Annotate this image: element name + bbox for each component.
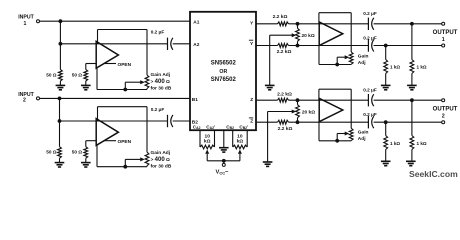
svg-text:VCC−: VCC− xyxy=(215,170,229,176)
svg-text:0.2 μF: 0.2 μF xyxy=(151,107,165,112)
op-amp U4 xyxy=(319,98,343,121)
node output1 bottom junction xyxy=(384,44,388,48)
svg-text:> 400 Ω: > 400 Ω xyxy=(151,79,170,85)
node output1 top junction xyxy=(410,22,414,26)
svg-text:50 Ω: 50 Ω xyxy=(46,72,57,77)
wire R9 to node xyxy=(289,99,369,101)
node Zbar junction xyxy=(296,120,300,124)
node amp1 input junction xyxy=(59,42,63,46)
svg-text:Gain Adj: Gain Adj xyxy=(151,72,171,78)
resistor R11 1k xyxy=(385,122,387,135)
svg-text:Gain Adj: Gain Adj xyxy=(151,150,171,156)
ground input1 xyxy=(56,84,66,86)
svg-text:1 kΩ: 1 kΩ xyxy=(417,141,427,146)
ground pot P7 xyxy=(263,161,273,163)
input terminal INPUT 2 xyxy=(37,97,40,100)
svg-text:1 kΩ: 1 kΩ xyxy=(390,64,400,69)
pot P4 10k body xyxy=(233,145,248,149)
svg-text:0.2 μF: 0.2 μF xyxy=(363,112,377,117)
wire C3 to output xyxy=(374,23,442,25)
node output2 bottom junction xyxy=(384,120,388,124)
node Ybar junction xyxy=(296,44,300,48)
feedback loop U4 xyxy=(318,89,320,100)
input terminal INPUT 1 xyxy=(37,20,40,23)
svg-text:SeekIC.com: SeekIC.com xyxy=(409,169,458,179)
pot P5 wiper xyxy=(270,34,293,36)
wire Z row xyxy=(256,99,278,101)
svg-text:2.2 kΩ: 2.2 kΩ xyxy=(278,126,293,132)
svg-text:0.2 μF: 0.2 μF xyxy=(151,30,165,35)
svg-text:INPUT: INPUT xyxy=(18,15,34,21)
svg-text:OUTPUT: OUTPUT xyxy=(433,107,458,113)
IC U2 SN56502/SN76502 xyxy=(190,12,256,130)
svg-text:1: 1 xyxy=(442,37,445,43)
pot P7 wiper xyxy=(268,111,293,113)
svg-text:OPEN: OPEN xyxy=(118,139,132,145)
pot P4 wiper xyxy=(238,150,242,154)
svg-text:Z: Z xyxy=(250,97,253,103)
pot P3 wiper xyxy=(205,150,209,154)
gain pot P6 U3 xyxy=(349,52,353,64)
feedback loop amp1 xyxy=(97,30,99,44)
svg-text:OPEN: OPEN xyxy=(118,62,132,68)
wire amp2 input row xyxy=(60,120,168,122)
svg-text:2.2 kΩ: 2.2 kΩ xyxy=(277,91,292,97)
ground R7 xyxy=(381,84,391,86)
resistor R10 2.2k xyxy=(278,120,289,124)
svg-text:Adj: Adj xyxy=(358,136,366,142)
ground IC substrate xyxy=(223,130,225,148)
ground R11 xyxy=(381,160,391,162)
svg-text:A1: A1 xyxy=(193,20,199,26)
svg-text:0.2 μF: 0.2 μF xyxy=(363,11,377,16)
svg-text:1: 1 xyxy=(24,21,27,27)
wire wiper2 to ground xyxy=(267,112,269,163)
capacitor C6 0.2uF xyxy=(367,116,369,128)
ground R2 xyxy=(81,84,91,86)
op-amp U3 xyxy=(319,22,343,46)
pot P3 10k legs xyxy=(199,130,201,147)
svg-text:2.2 kΩ: 2.2 kΩ xyxy=(273,14,288,20)
node Y junction xyxy=(296,22,300,26)
node Z junction xyxy=(296,98,300,102)
ground input2 xyxy=(55,162,65,164)
capacitor C1 0.2uF to A2 xyxy=(167,38,169,50)
svg-text:OUTPUT: OUTPUT xyxy=(433,30,458,36)
svg-text:0.2 μF: 0.2 μF xyxy=(363,35,377,40)
svg-text:kΩ: kΩ xyxy=(204,139,211,145)
capacitor C4 0.2uF xyxy=(367,39,369,51)
wire wiper1 to ground xyxy=(269,35,271,85)
svg-text:Adj: Adj xyxy=(358,60,366,66)
svg-text:Gain: Gain xyxy=(358,53,369,59)
svg-text:0.2 μF: 0.2 μF xyxy=(363,87,377,92)
capacitor C2 0.2uF to B2 xyxy=(167,115,169,127)
resistor R4 50ohm xyxy=(85,141,87,147)
resistor R12 1k xyxy=(411,100,413,135)
resistor R7 1k xyxy=(385,46,387,60)
svg-text:50 Ω: 50 Ω xyxy=(72,72,83,77)
wire VCC bus xyxy=(207,160,240,162)
svg-text:20 kΩ: 20 kΩ xyxy=(302,33,315,39)
feedback loop amp2 xyxy=(97,107,99,121)
node input1 junction xyxy=(59,19,63,23)
ground R4 xyxy=(81,162,91,164)
label OPEN amp2 xyxy=(104,140,116,142)
resistor R9 2.2k xyxy=(278,98,289,102)
wire Zbar row xyxy=(256,121,278,123)
ground pot P5 xyxy=(265,84,275,86)
svg-text:2.2 kΩ: 2.2 kΩ xyxy=(277,49,292,55)
svg-text:INPUT: INPUT xyxy=(18,92,34,98)
op-amp U1B xyxy=(86,140,96,142)
svg-text:> 400 Ω: > 400 Ω xyxy=(151,157,170,163)
wire amp1 input row xyxy=(60,43,167,45)
svg-text:50 Ω: 50 Ω xyxy=(72,150,83,155)
capacitor C3 0.2uF xyxy=(367,18,369,30)
label OPEN amp1 xyxy=(104,63,116,65)
svg-text:Z: Z xyxy=(250,119,253,125)
wire R6 to node xyxy=(289,45,369,47)
svg-text:Gain: Gain xyxy=(358,130,369,136)
ground R12 xyxy=(406,160,416,162)
op-amp U1A xyxy=(86,63,96,65)
svg-text:50 Ω: 50 Ω xyxy=(46,150,57,155)
resistor R1 50ohm xyxy=(59,44,61,70)
ground R8 xyxy=(407,84,417,86)
pot P5 20k xyxy=(297,24,299,29)
output terminal OUTPUT 2 xyxy=(442,99,445,102)
wire Y row xyxy=(256,23,278,25)
svg-text:1 kΩ: 1 kΩ xyxy=(390,141,400,146)
svg-text:2: 2 xyxy=(442,114,445,120)
wire R10 to node xyxy=(289,121,369,123)
terminal VCC- xyxy=(223,161,225,164)
svg-text:A2: A2 xyxy=(193,42,199,48)
svg-text:B1: B1 xyxy=(192,97,198,103)
svg-text:CA2′: CA2′ xyxy=(206,124,215,130)
wire input2 down xyxy=(59,98,61,121)
svg-text:1 kΩ: 1 kΩ xyxy=(417,64,427,69)
resistor R5 2.2k xyxy=(278,22,289,26)
gain pot P2 400ohm xyxy=(145,152,149,166)
pot P3 10k body xyxy=(200,145,215,149)
output terminal OUTPUT 1 xyxy=(442,22,445,25)
svg-text:for 30 dB: for 30 dB xyxy=(151,85,172,91)
wire input1 to A1 xyxy=(40,20,190,22)
wire input1 down xyxy=(59,21,61,44)
capacitor C5 0.2uF xyxy=(367,94,369,106)
svg-text:2: 2 xyxy=(23,98,26,104)
resistor R3 50ohm xyxy=(59,121,61,147)
node amp2 input junction xyxy=(58,119,62,123)
gain pot P8 U4 xyxy=(349,128,353,140)
node VCC junction xyxy=(222,159,226,163)
pot P4 10k legs xyxy=(232,130,234,147)
svg-text:CB2: CB2 xyxy=(226,124,234,130)
feedback loop U3 xyxy=(318,13,320,24)
svg-text:SN56502: SN56502 xyxy=(211,61,237,67)
svg-text:CB2′: CB2′ xyxy=(239,124,248,130)
svg-text:CA2: CA2 xyxy=(193,124,201,130)
node input2 junction xyxy=(58,97,62,101)
wire R5 to node xyxy=(289,23,369,25)
node output2 top junction xyxy=(410,98,414,102)
wire C4 to output xyxy=(374,45,442,47)
gain pot P1 400ohm xyxy=(145,75,149,89)
pot P7 20k xyxy=(297,100,299,105)
resistor R6 2.2k xyxy=(278,44,289,48)
resistor R8 1k xyxy=(411,24,413,60)
svg-text:for 30 dB: for 30 dB xyxy=(151,164,172,170)
svg-text:OR: OR xyxy=(219,69,227,75)
resistor R2 50ohm xyxy=(85,64,87,70)
wire C6 to output xyxy=(374,121,442,123)
wire input2 to B1 xyxy=(40,97,190,99)
wire C5 to output xyxy=(374,99,442,101)
svg-text:SN76502: SN76502 xyxy=(211,77,237,83)
svg-text:kΩ: kΩ xyxy=(237,139,244,145)
wire Ybar row xyxy=(256,45,278,47)
svg-text:20 kΩ: 20 kΩ xyxy=(302,109,315,115)
